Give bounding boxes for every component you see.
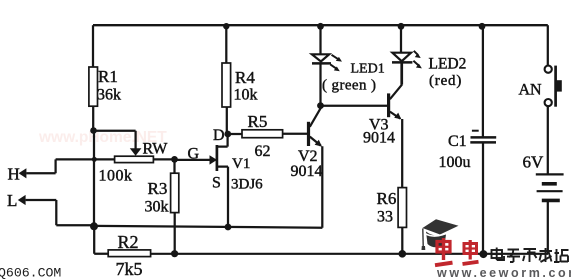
transistor V3 collector — [390, 62, 402, 99]
resistor R6 — [398, 188, 406, 228]
wire R3 bottom lead — [174, 213, 176, 254]
svg-text:33: 33 — [377, 209, 393, 226]
node D junction — [224, 131, 231, 138]
svg-text:AN: AN — [519, 81, 543, 98]
transistor V3 emitter — [390, 112, 400, 119]
svg-text:100k: 100k — [99, 168, 133, 185]
wire R1 top lead — [92, 25, 94, 67]
wire R5 left lead — [231, 133, 242, 135]
wire LED2 bottom lead — [400, 62, 402, 84]
battery plate short 2 — [542, 199, 560, 203]
switch AN actuator bar — [554, 66, 557, 107]
resistor R2 — [108, 250, 150, 257]
node junction H-branch — [92, 157, 97, 162]
battery plate long 1 — [536, 173, 564, 175]
wire top rail — [93, 24, 548, 26]
node junction LED1/V3 base — [317, 102, 324, 109]
svg-text:62: 62 — [255, 143, 271, 160]
node junction C1 bottom — [479, 250, 487, 258]
emitter arrow of V3 — [394, 113, 401, 120]
wire RW wiper lead — [94, 131, 136, 149]
wire mid rail — [94, 226, 322, 228]
wire L branch — [26, 200, 94, 225]
wire C1 top lead — [482, 25, 484, 136]
svg-text:R5: R5 — [248, 112, 268, 131]
terminal L arrow — [18, 195, 26, 205]
wire H branch — [26, 159, 55, 173]
transistor V3 base bar — [387, 93, 390, 117]
svg-text:30k: 30k — [145, 199, 169, 216]
svg-text:H: H — [8, 165, 20, 184]
gate arrow of V1 — [210, 155, 218, 164]
LED2 emission arrows — [413, 51, 418, 66]
svg-text:RW: RW — [143, 141, 169, 158]
resistor R3 — [171, 173, 179, 212]
watermark chongchong char 2 — [463, 240, 479, 264]
svg-text:C1: C1 — [448, 133, 467, 150]
watermark CJK site name — [492, 248, 569, 263]
switch AN contact bottom — [545, 99, 552, 106]
LED2 triangle — [392, 53, 411, 62]
wire V1 source lead — [217, 167, 228, 227]
svg-text:9014: 9014 — [363, 130, 395, 147]
node junction R6 bottom — [399, 250, 407, 258]
C1 polarity mark — [472, 130, 479, 132]
svg-text:V1: V1 — [232, 156, 250, 172]
wiper arrow of RW — [130, 148, 142, 156]
svg-text:7k5: 7k5 — [116, 259, 143, 279]
wire left vertical bus — [93, 131, 95, 227]
svg-text:10k: 10k — [234, 87, 258, 104]
node junction LED1 top — [317, 23, 324, 30]
transistor V2 base bar — [307, 122, 310, 146]
svg-text:Q606.COM: Q606.COM — [0, 266, 61, 279]
svg-text:6V: 6V — [523, 153, 545, 172]
wire RW left lead — [56, 158, 115, 160]
node junction R3/R2 bottom — [171, 250, 178, 257]
watermark chongchong char 1 — [435, 238, 453, 265]
svg-text:R6: R6 — [377, 189, 397, 208]
wire V3 base — [321, 105, 388, 107]
potentiometer RW body — [115, 156, 154, 162]
svg-text:G: G — [188, 146, 200, 163]
svg-text:( green ): ( green ) — [322, 78, 376, 94]
svg-text:LED1: LED1 — [351, 62, 385, 77]
wire R4 bottom lead — [226, 107, 228, 134]
svg-text:36k: 36k — [97, 87, 121, 104]
LED1 cathode bar — [312, 62, 331, 65]
wire R5 right lead — [283, 133, 308, 135]
wire R1 bottom lead — [92, 106, 94, 131]
svg-text:D: D — [213, 127, 225, 144]
resistor R4 — [222, 63, 231, 107]
capacitor C1 top plate — [471, 136, 497, 139]
node junction C1 top — [479, 23, 486, 30]
node C junction RW/gate/R3 — [171, 156, 178, 163]
wire switch top lead — [547, 25, 549, 65]
svg-text:www.eeworm.com: www.eeworm.com — [436, 266, 571, 279]
LED1 triangle — [312, 54, 329, 61]
svg-text:L: L — [7, 191, 17, 210]
emitter arrow of V2 — [315, 140, 322, 147]
wire V1 drain lead — [217, 134, 228, 147]
node A junction R1/wiper — [90, 127, 97, 134]
svg-text:R4: R4 — [235, 68, 255, 87]
LED2 cathode bar — [392, 61, 412, 64]
wire R6 top lead — [401, 119, 403, 188]
battery plate short 1 — [542, 182, 557, 186]
wire R6 bottom lead — [401, 227, 403, 253]
wire LED1 top lead — [319, 25, 321, 54]
svg-text:LED2: LED2 — [429, 56, 467, 73]
wire switch to battery — [547, 106, 549, 174]
node B junction left/mid-rail — [90, 222, 98, 230]
FET V1 channel — [216, 145, 219, 171]
transistor V2 emitter — [310, 137, 321, 146]
svg-text:R1: R1 — [98, 67, 118, 86]
wire R4 top lead — [225, 25, 227, 63]
svg-text:9014: 9014 — [291, 163, 323, 180]
svg-text:R3: R3 — [148, 179, 168, 198]
wire R2 drop — [94, 226, 108, 253]
svg-text:R2: R2 — [118, 232, 139, 252]
wire C1 bottom lead — [482, 143, 484, 254]
terminal H arrow — [19, 168, 27, 178]
svg-text:100u: 100u — [439, 154, 471, 171]
LED1 emission arrows — [330, 55, 339, 69]
wire LED2 top lead — [400, 25, 402, 53]
wire R3 top lead — [173, 159, 175, 173]
wire battery bottom lead — [547, 200, 549, 254]
transistor V2 collector — [310, 107, 321, 127]
resistor R5 — [242, 130, 283, 138]
switch AN contact top — [545, 66, 552, 73]
wire V2 emitter vertical — [321, 146, 323, 227]
svg-text:(red): (red) — [429, 73, 462, 89]
wire bottom rail — [151, 253, 548, 255]
node junction V1 source/mid rail — [225, 224, 232, 231]
node junction LED2 top — [398, 23, 405, 30]
wire LED1 bottom lead — [319, 63, 321, 105]
capacitor C1 bottom plate — [470, 141, 496, 144]
svg-text:3DJ6: 3DJ6 — [231, 177, 263, 193]
wire RW right lead — [153, 158, 174, 160]
battery plate long 2 — [537, 190, 563, 192]
wire gate of V1 — [175, 159, 213, 161]
node junction R4 top — [223, 23, 229, 29]
resistor R1 — [89, 67, 98, 106]
svg-text:S: S — [212, 175, 221, 192]
watermark graduation cap logo — [422, 219, 459, 250]
